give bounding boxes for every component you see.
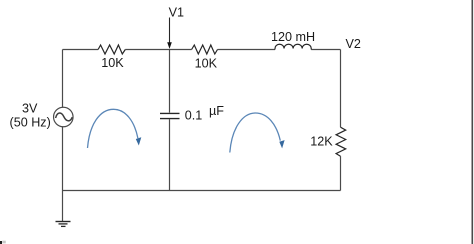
svg-text:12K: 12K xyxy=(310,134,333,148)
svg-text:10K: 10K xyxy=(101,56,124,70)
svg-text:(50 Hz): (50 Hz) xyxy=(10,116,51,130)
svg-text:V1: V1 xyxy=(169,6,184,20)
svg-text:V2: V2 xyxy=(346,37,361,51)
svg-text:120 mH: 120 mH xyxy=(271,30,315,44)
svg-text:0.1: 0.1 xyxy=(185,108,203,122)
svg-text:10K: 10K xyxy=(195,57,218,71)
svg-text:µF: µF xyxy=(209,104,224,118)
svg-text:3V: 3V xyxy=(22,102,38,116)
